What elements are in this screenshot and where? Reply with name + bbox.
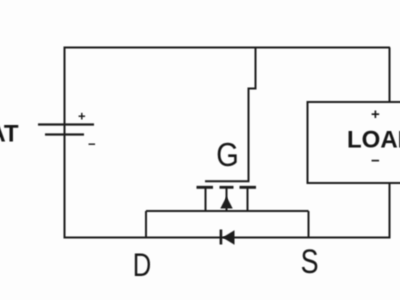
transistor Q1 gate plate [205,180,250,182]
svg-text:+: + [371,106,380,123]
transistor Q1 source lead [247,187,249,212]
wire drain riser [145,211,147,238]
battery BT1 negative plate [45,133,84,135]
wire source riser [308,211,310,238]
svg-text:+: + [78,109,86,124]
transistor Q1 drain lead [205,187,207,212]
wire right vertical upper (to load) [389,48,391,104]
transistor Q1 body lead [226,187,228,212]
wire bottom rail [64,237,391,239]
wire right vertical lower (from load) [389,182,391,238]
wire gate branch with jog [249,48,256,182]
diode D1 body (triangle) [223,230,235,244]
transistor Q1 channel segment left [197,186,214,189]
svg-text:−: − [371,153,380,170]
svg-text:BAT: BAT [0,120,19,147]
battery BT1 positive plate [38,123,94,125]
diode D1 cathode bar [220,230,223,245]
svg-text:LOAD: LOAD [347,127,400,154]
wire top rail [64,47,391,49]
transistor Q1 body bar [146,210,309,212]
svg-text:D: D [133,248,151,283]
transistor Q1 channel segment middle [220,186,234,189]
wire left vertical (battery branch) [64,48,66,239]
svg-text:−: − [88,137,96,152]
load box outline [308,102,400,183]
transistor Q1 channel segment right [240,186,257,189]
svg-text:G: G [216,136,239,173]
transistor Q1 substrate arrow [220,197,232,209]
svg-text:S: S [301,243,319,281]
